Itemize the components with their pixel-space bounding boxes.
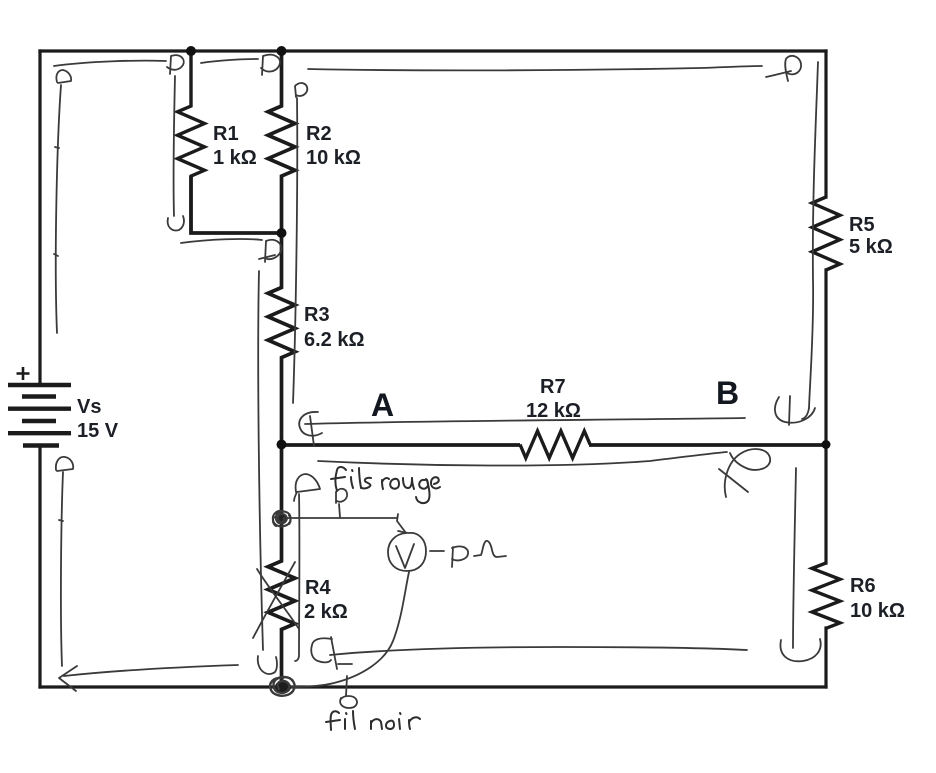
handwriting fils rouge [331,467,440,503]
wire right border above R5 [824,51,827,197]
hand long arrow along top to right corner [308,56,801,81]
resistor R6 [812,563,840,628]
svg-text:R3: R3 [304,304,330,326]
hand arrow above node B with cup-tick head [305,396,815,425]
handwriting fil noir [326,711,420,730]
label R2 10 kOhm [306,123,361,169]
hand dash right of voltmeter [430,550,444,552]
wire bottom border [40,685,826,688]
wire top border [40,49,826,52]
wire right border node B to R6 [824,444,827,563]
junction dot R1/R2 bottom [277,228,287,238]
hand line from node B down inside to cup above bottom-right [780,468,820,661]
resistor R5 [812,197,840,270]
svg-text:10 kΩ: 10 kΩ [306,147,361,169]
wire left border top (battery to top) [38,51,41,385]
resistor R3 [268,233,295,444]
hand line left of R3/R4 with cup arrowhead at bottom [258,271,277,674]
svg-text:5 kΩ: 5 kΩ [849,236,893,258]
svg-text:1 kΩ: 1 kΩ [213,147,257,169]
hand curved-square arrow with tick above bottom wire [311,637,352,669]
label R1 1 kOhm [213,123,257,169]
label R6 10 kOhm [850,575,905,622]
hand small flag under fils rouge with tail to wire [336,489,347,517]
hand triangle flag right of dash [452,546,468,567]
voltmeter V circle [388,531,426,571]
svg-text:2 kΩ: 2 kΩ [304,601,348,623]
node B dot [822,440,831,449]
hand arrow below battery with tail down [56,457,73,666]
node A dot [277,440,287,450]
hand curve voltmeter to ground node [290,572,409,687]
hand thin wire from node scribble to voltmeter [288,514,406,533]
junction dot R2 top [277,46,287,56]
svg-text:A: A [371,387,394,423]
hand flag right of R2 top with long tail to node A arrowhead [293,83,322,446]
hand arrow R1 to R2 along top [201,55,280,75]
svg-text:6.2 kΩ: 6.2 kΩ [304,329,365,351]
hand arrow to junction below R1 [181,239,281,262]
hand pulse symbol [474,541,506,557]
resistor R7 [520,431,590,458]
resistor R1 [178,51,205,233]
hand fil noir pointer ellipse [340,676,357,708]
svg-text:R5: R5 [849,214,875,236]
label R3 6.2 kOhm [304,304,365,351]
wire R1 bottom to R2 junction [191,176,282,233]
svg-text:R1: R1 [213,123,239,145]
svg-text:12 kΩ: 12 kΩ [526,400,581,422]
scribble node at bottom wire [270,677,294,696]
hand arrow below middle wire to node B with P flag [318,449,770,497]
hand flag fils rouge left with tail [294,474,320,661]
wire right border below R6 [824,628,827,687]
wire middle node A to node B [282,443,827,447]
hand arrow up flag below top-left corner with tail down left side [54,70,71,333]
resistor R4 [268,444,295,687]
svg-text:15 V: 15 V [77,420,119,442]
resistor R2 [268,51,295,233]
hand arrow bottom-left pointing left [59,665,238,691]
wire left border bottom (battery to bottom) [38,446,41,687]
svg-text:10 kΩ: 10 kΩ [850,600,905,622]
svg-text:B: B [716,375,739,411]
hand arrow top-left to R1 [54,55,184,74]
battery Vs [8,367,71,446]
wire right border R5 to node B [824,270,827,444]
junction dot R1 top [186,46,196,56]
hand arrow down along R1 left with hook [168,76,184,230]
label Vs 15 V [77,396,119,442]
label R5 5 kOhm [849,214,893,258]
hand line inside right border from top to node B [802,62,818,419]
svg-text:Vs: Vs [77,396,101,418]
svg-text:R7: R7 [540,376,566,398]
hand X scribble over R4 [253,562,299,638]
scribble node on R4 branch [273,511,291,527]
svg-text:R6: R6 [850,575,876,597]
hand long line above bottom wire to the right [330,647,747,655]
svg-text:R2: R2 [306,123,332,145]
label R7 12 kOhm [526,376,581,422]
svg-text:R4: R4 [305,577,331,599]
label R4 2 kOhm [304,577,348,623]
